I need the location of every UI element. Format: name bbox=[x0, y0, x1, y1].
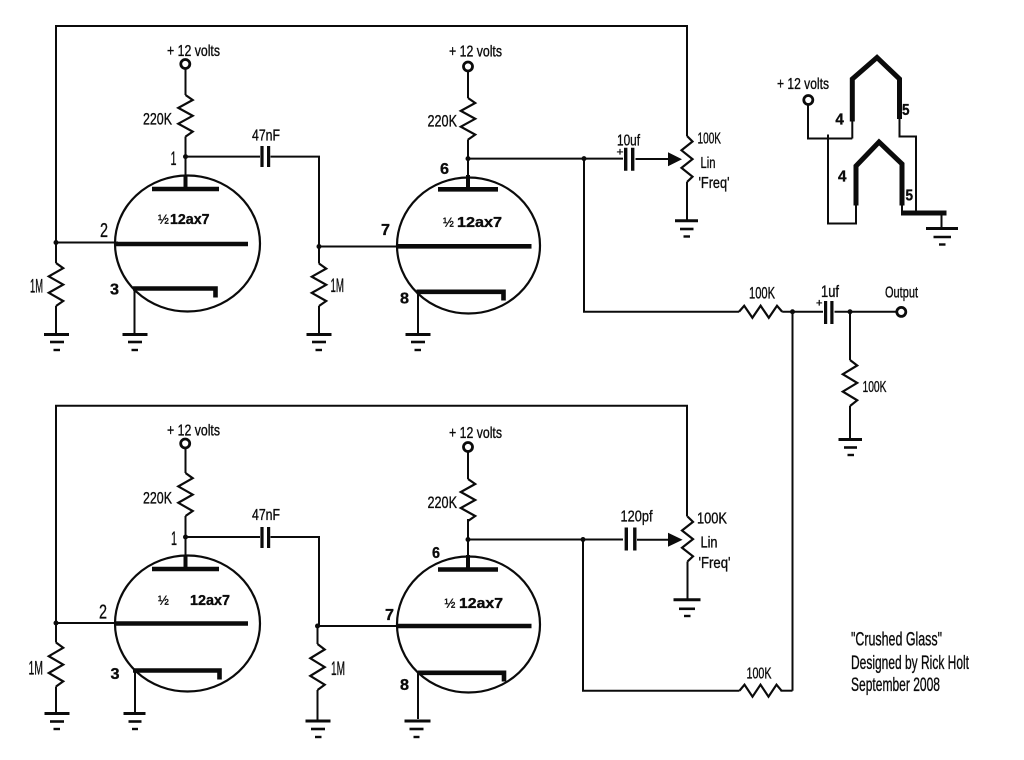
svg-text:4: 4 bbox=[838, 169, 847, 186]
wire top heater pin 5 to ground bus bbox=[900, 117, 917, 213]
svg-text:'Freq': 'Freq' bbox=[699, 175, 730, 192]
terminal +12V lower-right bbox=[464, 443, 473, 452]
plate bar V2a pin1 bbox=[152, 567, 219, 572]
terminal +12V upper-left bbox=[181, 60, 190, 69]
plate bar V1b pin6 bbox=[438, 187, 498, 192]
svg-text:5: 5 bbox=[906, 188, 914, 205]
svg-text:220K: 220K bbox=[428, 493, 458, 512]
ground below 1M lower-left bbox=[45, 712, 70, 715]
junction grid V1a bbox=[54, 240, 59, 245]
wire 220K R1 to node 1 bbox=[185, 137, 187, 178]
junction plate branch upper bbox=[582, 156, 587, 161]
svg-text:220K: 220K bbox=[143, 110, 172, 129]
resistor 1M upper-left bbox=[49, 263, 63, 306]
wire 10uf to wiper arrow bbox=[636, 158, 670, 160]
junction mixer output node bbox=[790, 309, 795, 314]
heater filament bottom (pins 4-5) bbox=[856, 142, 902, 206]
ground below 1M upper-right bbox=[307, 333, 332, 336]
svg-text:½: ½ bbox=[445, 596, 456, 611]
wire pin 7 horizontal upper bbox=[319, 246, 398, 248]
svg-text:+: + bbox=[816, 298, 823, 310]
wire 1uf cap to output terminal bbox=[835, 311, 898, 313]
cathode V2b pin8 bbox=[418, 673, 504, 682]
wire 1M lower-right leads bbox=[317, 626, 319, 720]
wire node1 lower to 47nF-2 bbox=[186, 536, 261, 538]
wire 1M upper-left top lead bbox=[55, 243, 57, 264]
heater ground bus bar bbox=[901, 211, 947, 216]
terminal +12V heater bbox=[804, 96, 813, 105]
svg-text:6: 6 bbox=[432, 545, 440, 562]
svg-text:1M: 1M bbox=[29, 659, 44, 680]
svg-text:1M: 1M bbox=[331, 276, 345, 297]
svg-text:Lin: Lin bbox=[701, 155, 716, 172]
junction 1uf to shunt node bbox=[848, 309, 853, 314]
ground below cathode V1b bbox=[406, 333, 431, 336]
svg-text:Designed by Rick Holt: Designed by Rick Holt bbox=[851, 652, 969, 674]
svg-text:7: 7 bbox=[381, 222, 390, 239]
wire shunt 100K bottom lead to ground bbox=[849, 406, 851, 438]
resistor 100K mixer lower bbox=[740, 685, 782, 697]
terminal +12V lower-left bbox=[181, 439, 190, 448]
capacitor 47nF upper plates bbox=[262, 146, 269, 167]
resistor 220K R2 bbox=[461, 98, 475, 140]
wire 47nF-2 right to grid V2b bbox=[271, 537, 320, 626]
svg-text:100K: 100K bbox=[863, 379, 887, 396]
ground below cathode V1a bbox=[123, 333, 148, 336]
svg-text:47nF: 47nF bbox=[252, 507, 280, 524]
resistor 100K mixer upper bbox=[739, 306, 782, 318]
ground below cathode V2b bbox=[405, 720, 431, 723]
svg-text:8: 8 bbox=[400, 677, 409, 694]
svg-text:2: 2 bbox=[99, 602, 107, 624]
svg-text:120pf: 120pf bbox=[621, 509, 653, 526]
resistor 220K R1 bbox=[178, 95, 192, 137]
svg-text:Lin: Lin bbox=[701, 535, 718, 552]
tube V1a envelope bbox=[115, 176, 260, 312]
resistor 220K R6 bbox=[461, 479, 475, 521]
svg-text:100K: 100K bbox=[697, 511, 727, 528]
ground below 1M upper-left bbox=[44, 333, 69, 336]
svg-text:+ 12 volts: + 12 volts bbox=[167, 43, 220, 60]
plate stub V2b bbox=[466, 555, 470, 569]
terminal Output bbox=[897, 307, 906, 316]
svg-text:2: 2 bbox=[100, 220, 108, 242]
ground below 1M lower-right bbox=[306, 720, 331, 723]
resistor 1M lower-left bbox=[49, 643, 63, 687]
grid bar V1b pin7 bbox=[398, 244, 532, 249]
wire plate V2b node to 120pf bbox=[468, 539, 623, 541]
cathode V1a pin3 bbox=[133, 289, 216, 298]
svg-text:100K: 100K bbox=[698, 131, 722, 148]
wire heater branch to pin 4 bottom heater bbox=[828, 135, 856, 224]
svg-text:220K: 220K bbox=[143, 489, 172, 508]
wire +12V terminal 2 to 220K R2 bbox=[467, 71, 469, 99]
wire node1 to 47nF left bbox=[186, 156, 261, 158]
ground below pot lower bbox=[674, 598, 701, 601]
capacitor 47nF lower plates bbox=[262, 527, 269, 548]
plate bar V1a pin1 bbox=[152, 187, 219, 192]
capacitor 120pf plates bbox=[626, 528, 635, 551]
svg-text:+: + bbox=[617, 147, 624, 159]
svg-text:1uf: 1uf bbox=[821, 282, 839, 301]
svg-text:12ax7: 12ax7 bbox=[170, 212, 210, 228]
svg-text:1: 1 bbox=[171, 529, 177, 550]
svg-text:1M: 1M bbox=[331, 659, 345, 680]
junction node 6 lower bbox=[466, 537, 471, 542]
tube V1b envelope bbox=[397, 178, 540, 314]
wire cathode V1a to ground bbox=[134, 290, 136, 334]
cathode V1b pin8 bbox=[417, 292, 504, 301]
svg-text:1: 1 bbox=[171, 149, 177, 170]
wire +12V terminal 1 to 220K R1 bbox=[185, 69, 187, 96]
svg-text:220K: 220K bbox=[428, 112, 458, 131]
potentiometer 100K Freq lower track bbox=[682, 517, 693, 562]
wire 47nF right to grid V1b vertical bbox=[271, 157, 320, 247]
plate stub V1a bbox=[184, 175, 188, 189]
wire heater +12V terminal to pin 4 top heater bbox=[808, 105, 852, 139]
svg-text:+ 12 volts: + 12 volts bbox=[167, 423, 220, 440]
grid bar V2b pin7 bbox=[398, 624, 532, 629]
wire pot1 bottom to ground bbox=[686, 182, 688, 220]
svg-text:1M: 1M bbox=[30, 277, 43, 298]
junction node 1 lower bbox=[183, 535, 188, 540]
tube V2a envelope bbox=[115, 556, 260, 692]
wire shunt 100K top lead bbox=[849, 312, 851, 360]
svg-text:Output: Output bbox=[885, 285, 918, 302]
svg-text:7: 7 bbox=[385, 607, 394, 624]
potentiometer 100K Freq upper track bbox=[682, 136, 693, 182]
svg-text:100K: 100K bbox=[747, 666, 772, 683]
junction grid V2a bbox=[54, 621, 59, 626]
wire 1M upper-right leads bbox=[318, 247, 320, 335]
svg-text:'Freq': 'Freq' bbox=[699, 555, 731, 572]
wire cathode V2b to ground bbox=[417, 673, 419, 719]
wire top feedback loop upper (grid V1a to pot top) bbox=[56, 26, 687, 243]
cathode V2a pin3 bbox=[133, 671, 220, 680]
wire 220K R2 to node 6 bbox=[467, 140, 469, 178]
wire plate V1b node to 10uf and branch bbox=[468, 158, 623, 160]
junction node 6 upper bbox=[466, 156, 471, 161]
svg-text:½: ½ bbox=[158, 593, 169, 608]
wire top feedback loop lower (grid V2a to pot2 top) bbox=[56, 406, 687, 623]
plate stub V1b bbox=[466, 175, 470, 189]
ground below output shunt 100K bbox=[839, 438, 863, 441]
wire +12V terminal 5 to 220K R6 bbox=[467, 452, 469, 480]
capacitor 1uf plates bbox=[826, 301, 832, 324]
terminal +12V upper-right bbox=[464, 62, 473, 71]
wire pin 2 horizontal upper bbox=[56, 242, 118, 244]
svg-text:+ 12 volts: + 12 volts bbox=[777, 76, 829, 93]
svg-text:100K: 100K bbox=[749, 284, 775, 303]
resistor 220K R5 bbox=[178, 473, 192, 516]
wiper arrow pot upper bbox=[668, 152, 682, 166]
svg-text:½: ½ bbox=[443, 215, 454, 230]
ground heater bbox=[926, 227, 958, 230]
junction grid V1b bbox=[317, 244, 322, 249]
heater filament top (pins 4-5) bbox=[852, 58, 899, 122]
resistor 1M upper-right bbox=[312, 264, 326, 307]
plate bar V2b pin6 bbox=[438, 567, 498, 572]
wire pin 2 horizontal lower bbox=[56, 622, 118, 624]
grid bar V2a pin2 bbox=[116, 621, 249, 626]
junction grid V2b bbox=[315, 624, 320, 629]
junction node 1 upper bbox=[183, 154, 188, 159]
svg-text:12ax7: 12ax7 bbox=[459, 596, 503, 612]
svg-text:½: ½ bbox=[158, 212, 169, 227]
svg-text:5: 5 bbox=[902, 102, 910, 119]
wire mixer 100K to output node bbox=[782, 311, 792, 313]
wire pot2 bottom to ground bbox=[687, 562, 689, 599]
tube V2b envelope bbox=[397, 557, 540, 693]
svg-text:47nF: 47nF bbox=[252, 128, 280, 145]
wire bottom heater pin 5 lead bbox=[901, 204, 903, 213]
wire 220K R6 to node 6 lower bbox=[467, 519, 469, 557]
wire output node to 1uf cap bbox=[793, 311, 824, 313]
svg-text:12ax7: 12ax7 bbox=[457, 215, 502, 231]
plate stub V2a bbox=[184, 555, 188, 569]
ground below pot upper bbox=[675, 219, 698, 222]
wire 1M lower-left leads bbox=[55, 623, 57, 713]
wire mixer2 100K to vertical bus bbox=[781, 690, 793, 692]
resistor 1M lower-right bbox=[310, 644, 324, 690]
wire cathode V2a to ground bbox=[134, 671, 136, 713]
svg-text:September 2008: September 2008 bbox=[851, 674, 940, 696]
svg-text:6: 6 bbox=[440, 161, 449, 178]
svg-text:4: 4 bbox=[835, 112, 844, 129]
svg-text:3: 3 bbox=[111, 666, 120, 683]
svg-text:+ 12 volts: + 12 volts bbox=[449, 44, 502, 61]
svg-text:3: 3 bbox=[110, 282, 119, 299]
grid bar V1a pin2 bbox=[116, 242, 249, 247]
svg-text:"Crushed Glass": "Crushed Glass" bbox=[851, 629, 942, 651]
svg-text:8: 8 bbox=[400, 291, 409, 308]
wire pin 7 horizontal lower bbox=[319, 625, 398, 627]
capacitor 10uf plates bbox=[626, 148, 633, 171]
wire branch down from lower plate node to mixer lower bbox=[583, 540, 740, 691]
resistor 100K output shunt bbox=[843, 360, 857, 406]
svg-text:+ 12 volts: + 12 volts bbox=[449, 425, 502, 442]
wire branch down from plate node to mixer upper bbox=[584, 159, 739, 312]
wire 1M upper-left bottom lead to ground bbox=[55, 306, 57, 334]
wire vertical bus lower mixer to output node bbox=[792, 312, 794, 691]
wire top heater pin 4 lead bbox=[851, 120, 853, 139]
junction plate branch lower bbox=[581, 537, 586, 542]
wire 120pf to wiper arrow lower bbox=[637, 539, 669, 541]
ground below cathode V2a bbox=[124, 712, 146, 715]
wiper arrow pot lower bbox=[668, 533, 683, 547]
wire heater bus to ground bbox=[941, 215, 943, 227]
wire cathode V1b to ground bbox=[417, 292, 419, 334]
svg-text:12ax7: 12ax7 bbox=[190, 593, 230, 609]
wire 220K R5 to node 1 lower bbox=[185, 516, 187, 557]
wire +12V terminal 4 to 220K R5 bbox=[185, 448, 187, 473]
